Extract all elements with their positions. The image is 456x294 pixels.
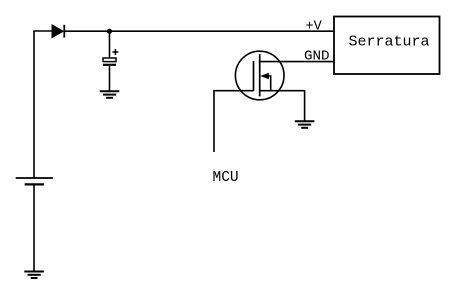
- ground (capacitor): [100, 91, 120, 98]
- wire battery+ to diode anode: [34, 31, 52, 178]
- svg-text:MCU: MCU: [213, 170, 239, 186]
- wire MOSFET gate to MCU: [214, 91, 254, 152]
- label GND: [304, 49, 330, 65]
- diode D1: [52, 25, 64, 38]
- battery B1: [16, 178, 53, 184]
- MOSFET Q1: [235, 51, 284, 100]
- block Serratura: [334, 17, 440, 75]
- svg-text:Serratura: Serratura: [348, 34, 429, 51]
- wire junction to +V input of Serratura: [110, 30, 335, 32]
- svg-text:GND: GND: [304, 49, 330, 65]
- junction dot: [107, 29, 112, 34]
- ground (MOSFET source): [295, 121, 315, 128]
- wire junction down to capacitor: [109, 31, 111, 58]
- wire capacitor to ground: [109, 65, 111, 92]
- capacitor C1 (polarized): [103, 49, 118, 65]
- wire diode cathode to junction: [64, 30, 109, 32]
- wire battery- to ground: [33, 184, 35, 271]
- wire MOSFET source to ground: [260, 91, 305, 122]
- wire MOSFET drain to GND input of Serratura: [260, 61, 334, 63]
- svg-text:+V: +V: [306, 20, 323, 35]
- ground (battery): [24, 272, 44, 279]
- label MCU: [213, 170, 239, 186]
- label +V: [306, 20, 323, 35]
